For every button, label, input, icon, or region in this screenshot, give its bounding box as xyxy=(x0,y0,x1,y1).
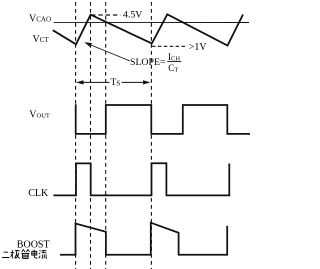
svg-text:>1V: >1V xyxy=(189,42,208,53)
svg-text:4.5V: 4.5V xyxy=(123,10,142,21)
wire CLK waveform xyxy=(53,163,229,195)
svg-text:VOUT: VOUT xyxy=(29,110,50,121)
char 管 xyxy=(21,250,29,259)
wire VCAO level line xyxy=(54,21,249,23)
node t0 dashed vertical line x=75.6 xyxy=(75,2,77,269)
node >1V dashed leader xyxy=(152,45,186,47)
char 极 xyxy=(11,250,20,259)
node t1 dashed vertical line x=90.5 xyxy=(90,2,92,269)
char 二 xyxy=(2,252,9,257)
char 流 xyxy=(39,250,47,258)
svg-text:BOOST: BOOST xyxy=(17,240,50,251)
wire VOUT waveform xyxy=(76,104,250,134)
wire BOOST diode current waveform xyxy=(60,223,227,255)
svg-text:SLOPE=: SLOPE= xyxy=(130,57,166,68)
svg-text:ICH: ICH xyxy=(168,52,180,62)
wire slope annotation arrow xyxy=(89,44,130,61)
node formula fraction bar xyxy=(167,61,181,63)
node t2 dashed vertical line x=105.7 xyxy=(105,2,107,269)
node 4.5V dashed leader xyxy=(91,14,121,16)
svg-text:TS: TS xyxy=(111,78,121,88)
svg-text:VCAO: VCAO xyxy=(29,14,51,25)
char 电 xyxy=(32,250,38,259)
svg-text:VCT: VCT xyxy=(33,34,50,45)
node Chinese caption 二极管电流 (diode current) xyxy=(2,250,47,259)
wire Ts right measurement arrow xyxy=(122,81,148,83)
svg-text:CLK: CLK xyxy=(28,188,49,199)
svg-text:CT: CT xyxy=(168,63,178,73)
wire Ts left measurement arrow xyxy=(79,81,110,83)
wire VCT sawtooth waveform xyxy=(53,14,243,45)
node t3 dashed vertical line x=151.4 xyxy=(150,2,152,269)
